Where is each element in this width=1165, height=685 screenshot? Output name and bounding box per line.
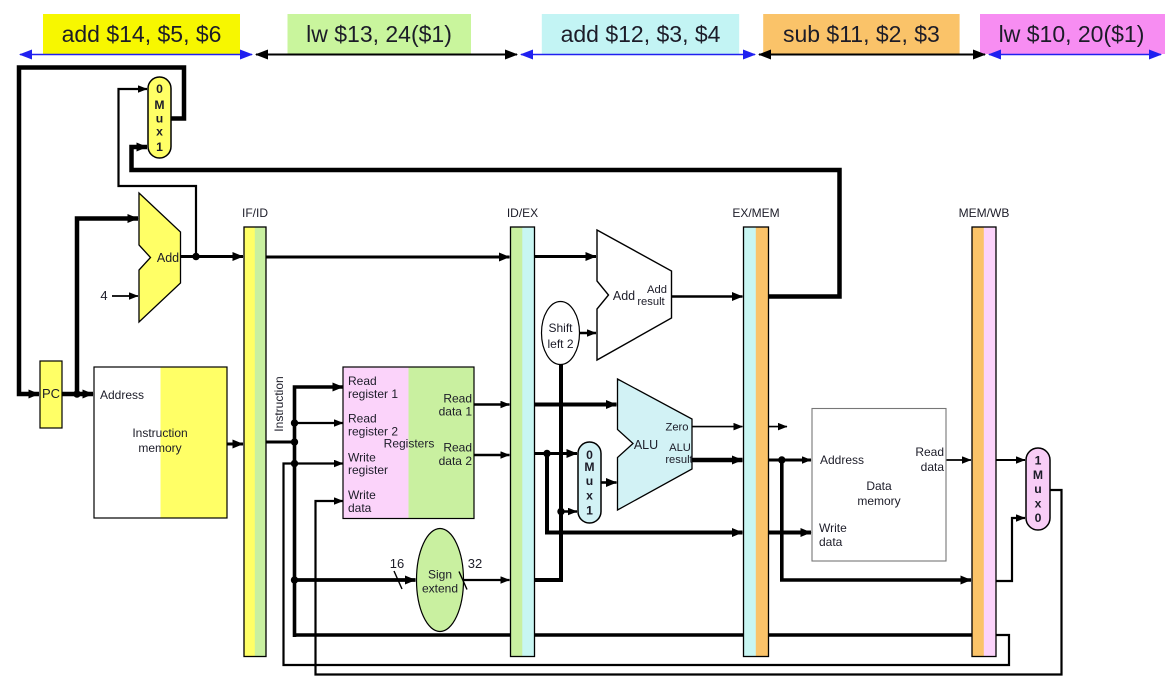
svg-text:Read: Read bbox=[348, 374, 377, 388]
svg-text:sub $11, $2, $3: sub $11, $2, $3 bbox=[783, 21, 940, 47]
svg-text:EX/MEM: EX/MEM bbox=[732, 206, 779, 220]
svg-text:data: data bbox=[819, 535, 843, 549]
svg-text:MEM/WB: MEM/WB bbox=[959, 206, 1010, 220]
svg-text:M: M bbox=[154, 98, 164, 112]
svg-text:Registers: Registers bbox=[384, 437, 435, 451]
svg-text:M: M bbox=[1033, 468, 1043, 482]
svg-text:data: data bbox=[921, 460, 945, 474]
svg-text:Address: Address bbox=[100, 388, 144, 402]
svg-text:1: 1 bbox=[1035, 454, 1042, 468]
svg-text:0: 0 bbox=[156, 82, 163, 96]
svg-text:result: result bbox=[637, 296, 665, 308]
svg-text:ALU: ALU bbox=[669, 442, 691, 454]
svg-text:M: M bbox=[584, 460, 594, 474]
svg-text:u: u bbox=[1034, 482, 1041, 496]
svg-text:Sign: Sign bbox=[428, 568, 452, 582]
svg-text:result: result bbox=[665, 454, 693, 466]
svg-text:add $12, $3, $4: add $12, $3, $4 bbox=[561, 21, 721, 47]
svg-text:data 2: data 2 bbox=[439, 454, 473, 468]
svg-text:data 1: data 1 bbox=[439, 405, 473, 419]
svg-text:Read: Read bbox=[348, 412, 377, 426]
svg-text:Data: Data bbox=[866, 479, 892, 493]
svg-text:0: 0 bbox=[1035, 511, 1042, 525]
svg-text:PC: PC bbox=[42, 386, 60, 401]
svg-text:1: 1 bbox=[586, 504, 593, 518]
svg-text:Zero: Zero bbox=[665, 422, 688, 434]
svg-text:Address: Address bbox=[820, 453, 864, 467]
svg-text:register: register bbox=[348, 463, 388, 477]
svg-text:x: x bbox=[586, 489, 593, 503]
svg-text:memory: memory bbox=[138, 441, 181, 455]
svg-text:Read: Read bbox=[443, 441, 472, 455]
svg-text:lw $13, 24($1): lw $13, 24($1) bbox=[306, 21, 452, 47]
svg-text:Read: Read bbox=[443, 392, 472, 406]
svg-text:Instruction: Instruction bbox=[132, 426, 187, 440]
svg-text:Shift: Shift bbox=[548, 321, 573, 335]
svg-text:Add: Add bbox=[613, 289, 635, 303]
svg-text:4: 4 bbox=[100, 288, 107, 303]
svg-text:lw $10, 20($1): lw $10, 20($1) bbox=[999, 21, 1145, 47]
svg-text:left 2: left 2 bbox=[547, 337, 573, 351]
svg-text:add $14, $5, $6: add $14, $5, $6 bbox=[62, 21, 222, 47]
svg-text:Write: Write bbox=[348, 488, 376, 502]
svg-text:Add: Add bbox=[647, 284, 667, 296]
svg-text:Add: Add bbox=[157, 251, 179, 265]
svg-text:u: u bbox=[156, 112, 163, 126]
svg-text:memory: memory bbox=[857, 494, 900, 508]
svg-text:data: data bbox=[348, 501, 372, 515]
svg-text:x: x bbox=[156, 125, 163, 139]
svg-text:Read: Read bbox=[915, 445, 944, 459]
svg-text:ID/EX: ID/EX bbox=[507, 206, 538, 220]
svg-text:Write: Write bbox=[819, 521, 847, 535]
svg-text:ALU: ALU bbox=[634, 438, 658, 452]
svg-text:32: 32 bbox=[468, 556, 482, 571]
svg-text:extend: extend bbox=[422, 582, 458, 596]
svg-text:16: 16 bbox=[390, 556, 404, 571]
svg-text:Instruction: Instruction bbox=[272, 376, 286, 431]
svg-text:IF/ID: IF/ID bbox=[242, 206, 268, 220]
svg-text:register 1: register 1 bbox=[348, 387, 398, 401]
svg-text:x: x bbox=[1035, 497, 1042, 511]
svg-text:u: u bbox=[586, 474, 593, 488]
svg-text:1: 1 bbox=[156, 140, 163, 154]
